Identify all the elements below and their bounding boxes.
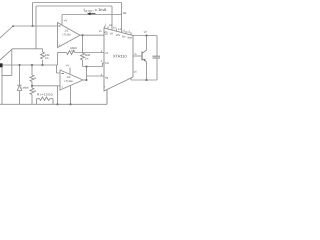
svg-text:Ag: Ag [105,76,109,79]
svg-text:5kΩ: 5kΩ [85,53,90,57]
svg-text:Cm: Cm [105,62,109,65]
svg-text:LT1366: LT1366 [62,34,71,37]
svg-text:+V: +V [64,19,68,23]
svg-text:LT1366: LT1366 [64,80,73,83]
svg-text:RZ=150Ω: RZ=150Ω [37,93,53,97]
svg-text:Vrf: Vrf [110,32,114,35]
svg-text:Vn: Vn [105,33,109,36]
svg-text:Vn: Vn [105,52,109,55]
svg-text:Src: Src [122,35,127,38]
svg-text:Sen: Sen [127,37,132,40]
svg-text:+: + [61,85,63,89]
svg-text:10V: 10V [116,34,121,37]
svg-text:1/2: 1/2 [65,29,69,33]
svg-text:XTR110: XTR110 [113,54,127,58]
svg-text:LM385: LM385 [22,86,30,89]
svg-text:1M: 1M [123,11,128,15]
svg-text:+: + [59,43,61,47]
svg-text:432: 432 [45,53,50,57]
svg-text:G: G [135,53,137,56]
svg-text:1/2: 1/2 [67,75,71,79]
svg-text:+V: +V [66,64,70,68]
